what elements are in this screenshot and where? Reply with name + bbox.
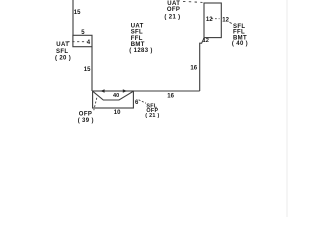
svg-text:12: 12 — [222, 17, 229, 23]
svg-text:UAT: UAT — [56, 42, 69, 48]
svg-text:16: 16 — [167, 94, 174, 100]
svg-text:BMT: BMT — [131, 42, 145, 48]
faint scan edge line — [286, 0, 288, 217]
leader dashes transition to OFP (39) — [94, 98, 97, 110]
riser shaft box B2 — [204, 3, 221, 38]
svg-text:10: 10 — [114, 110, 121, 116]
svg-text:40: 40 — [113, 93, 119, 99]
wire riser duct right — [200, 38, 204, 91]
leader dashes UAT OFP (21) to shaft box — [183, 1, 203, 2]
svg-text:SFL: SFL — [56, 49, 68, 55]
terminal box B1 — [73, 35, 92, 46]
svg-text:16: 16 — [190, 65, 197, 71]
svg-text:UAT: UAT — [167, 1, 180, 7]
svg-text:UAT: UAT — [131, 23, 144, 29]
svg-text:( 39 ): ( 39 ) — [78, 118, 94, 124]
svg-text:OFP: OFP — [79, 112, 92, 118]
transition inner trapezoid — [93, 91, 133, 100]
transition unit body — [93, 91, 134, 108]
svg-text:15: 15 — [74, 10, 81, 16]
leader dashes 6 to SFL OFP (21) — [139, 100, 146, 103]
wire main horizontal duct run — [133, 90, 199, 92]
svg-text:FFL: FFL — [131, 36, 143, 42]
svg-text:( 40 ): ( 40 ) — [232, 41, 248, 47]
leader dashes 12 to 12 inside shaft — [212, 18, 220, 20]
svg-text:OFP: OFP — [167, 7, 180, 13]
svg-text:( 1283 ): ( 1283 ) — [129, 48, 152, 54]
svg-text:( 21 ): ( 21 ) — [164, 15, 180, 21]
svg-text:( 21 ): ( 21 ) — [145, 113, 159, 119]
svg-text:12: 12 — [203, 38, 209, 44]
svg-text:SFL: SFL — [131, 30, 143, 36]
svg-text:( 20 ): ( 20 ) — [55, 55, 71, 61]
leader dash 12 to SFL FFL BMT (40) — [230, 22, 233, 24]
leader dashes UAT SFL (20) to value 4 — [68, 41, 88, 43]
svg-text:15: 15 — [84, 67, 91, 73]
dimension arrow left on transition — [100, 89, 104, 93]
dimension arrow right on transition — [123, 89, 127, 93]
wire riser duct top-left — [72, 0, 74, 35]
wire duct drop below B1 — [91, 47, 93, 91]
svg-text:12: 12 — [206, 17, 213, 23]
